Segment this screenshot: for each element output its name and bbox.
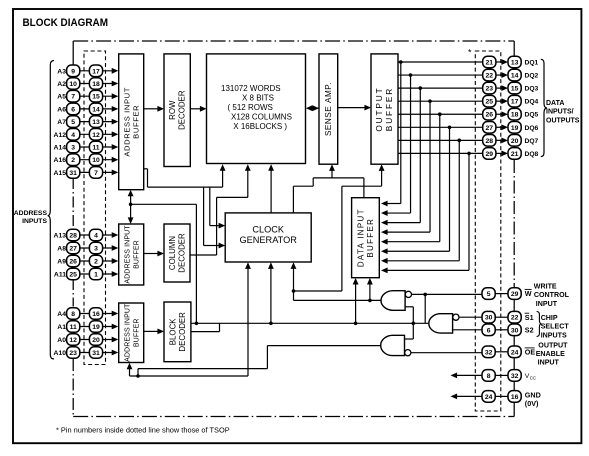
svg-text:BLOCK DIAGRAM: BLOCK DIAGRAM [23,17,109,29]
svg-text:3: 3 [94,246,98,253]
svg-text:16: 16 [92,311,100,318]
svg-text:19: 19 [511,125,519,132]
pin A10 (SOP 23 / TSOP 31) [54,347,119,359]
pin A7 (SOP 5 / TSOP 13) [57,116,118,128]
svg-text:CHIP: CHIP [541,314,558,322]
svg-text:ADDRESS INPUT: ADDRESS INPUT [125,225,132,284]
pin Vcc (TSOP 8 / SOP 32) [482,370,521,382]
svg-text:13: 13 [511,60,519,67]
svg-text:A1: A1 [57,324,66,331]
svg-text:30: 30 [511,327,519,334]
pin A8 (SOP 27 / TSOP 3) [57,242,118,254]
wire DQ6 net [381,125,483,254]
wire Vcc distribution [451,373,483,379]
svg-text:INPUT: INPUT [538,359,560,367]
svg-text:GENERATOR: GENERATOR [240,235,298,245]
svg-text:X128 COLUMNS: X128 COLUMNS [231,113,292,122]
block U11 CLOCK GENERATOR [225,213,311,262]
svg-text:ADDRESS: ADDRESS [14,210,48,217]
block U2 ROW DECODER [164,54,190,167]
svg-text:15: 15 [92,94,100,101]
svg-text:SELECT: SELECT [541,323,570,331]
svg-text:4: 4 [94,233,98,240]
svg-text:DQ3: DQ3 [525,86,539,93]
svg-text:13: 13 [92,119,100,126]
svg-text:DECODER: DECODER [177,233,186,273]
svg-text:BUFFER: BUFFER [134,240,141,269]
svg-text:S1: S1 [525,313,534,322]
svg-text:DQ5: DQ5 [525,112,539,119]
node OE-bar output enable label [525,341,569,366]
svg-text:17: 17 [92,68,100,75]
svg-text:COLUMN: COLUMN [168,236,177,270]
svg-text:INPUT: INPUT [536,300,558,308]
svg-text:14: 14 [92,106,100,113]
svg-text:25: 25 [486,99,494,106]
chip package boundary (dash-dot) [73,41,514,417]
svg-text:DQ1: DQ1 [525,60,539,67]
wire AIB2 to column decoder [144,251,164,257]
svg-text:BUFFER: BUFFER [134,318,141,347]
wire CS net to clock bottom [268,262,274,323]
wire junction to clock net [131,204,197,323]
svg-text:A5: A5 [57,94,66,101]
pin A0 (SOP 12 / TSOP 20) [57,334,118,346]
svg-text:11: 11 [70,324,77,331]
wire gate G3 output net [136,346,381,378]
svg-text:17: 17 [511,99,519,106]
svg-text:A2: A2 [57,81,66,88]
svg-text:* Pin numbers inside dotted li: * Pin numbers inside dotted line show th… [56,426,230,435]
pin GND (TSOP 24 / SOP 16) [482,391,521,403]
svg-text:27: 27 [486,125,494,132]
svg-text:CONTROL: CONTROL [534,291,570,299]
svg-text:8: 8 [71,311,75,318]
svg-text:131072 WORDS: 131072 WORDS [221,84,281,93]
svg-text:DECODER: DECODER [178,312,187,352]
pin DQ4 (TSOP 25 / SOP 17) [483,95,539,107]
svg-text:2: 2 [94,259,98,266]
block U3 memory cell array 131072 words [207,54,306,164]
wire up into array (2) [245,164,251,197]
node GND label [525,390,541,408]
footnote TSOP note [56,426,230,435]
asterisk marker [468,48,472,58]
wire G1 inverted input / W net [412,293,483,324]
svg-text:31: 31 [92,350,100,357]
wire block decoder aux [191,323,220,331]
svg-text:BUFFER: BUFFER [132,105,141,139]
svg-text:DATA INPUT: DATA INPUT [357,208,366,267]
svg-text:ADDRESS INPUT: ADDRESS INPUT [123,87,132,157]
svg-text:11: 11 [92,145,99,152]
wire clock to sense amp net [293,178,364,213]
svg-text:A6: A6 [57,106,66,113]
svg-text:A12: A12 [54,132,67,139]
block U6 ADDRESS INPUT BUFFER (columns) [119,224,144,285]
pin DQ6 (TSOP 27 / SOP 19) [483,121,539,133]
svg-text:24: 24 [485,394,493,401]
wire gate G1 output net [291,262,382,302]
svg-text:31: 31 [69,170,77,177]
wire branch to clock input 1 [210,187,225,228]
wire up into array (1) [220,164,226,187]
wire AIB1-AIB2 bus [128,190,134,224]
svg-text:32: 32 [511,373,519,380]
block U8 ADDRESS INPUT BUFFER (blocks) [119,303,144,363]
wire chip-select net (G2 output) [191,322,429,326]
block U10 DATA INPUT BUFFER [352,198,380,278]
svg-text:CLOCK: CLOCK [252,224,285,234]
svg-text:*: * [468,48,472,58]
pin A9 (SOP 26 / TSOP 2) [57,255,118,267]
wire OE net to G3 [411,352,482,354]
pin DQ1 (TSOP 21 / SOP 13) [483,56,539,68]
svg-text:28: 28 [486,138,494,145]
gate G3 (output enable NAND, mirrored) [381,335,411,356]
svg-text:26: 26 [486,112,494,119]
pin A6 (SOP 6 / TSOP 14) [57,103,118,115]
wire DQ7 net [381,139,483,264]
wire sense amp to output buffer [338,105,371,111]
svg-text:SENSE AMP.: SENSE AMP. [324,82,333,136]
pin S2 (TSOP 6 / SOP 30) [482,324,521,336]
wire clock generator to array [268,164,274,213]
svg-text:INPUTS: INPUTS [22,218,47,225]
node W-bar write control label [525,283,570,308]
wire AIB1 output net [144,169,223,187]
wire DQ4 net [381,99,483,235]
pin DQ3 (TSOP 23 / SOP 15) [483,82,539,94]
svg-text:BLOCK: BLOCK [168,318,177,345]
svg-text:DQ8: DQ8 [525,151,539,158]
svg-text:27: 27 [69,246,77,253]
svg-text:A7: A7 [57,119,66,126]
wire CS net to data input buffer bottom [353,278,359,323]
svg-text:2: 2 [71,157,75,164]
svg-text:5: 5 [71,119,75,126]
svg-text:7: 7 [71,94,75,101]
svg-text:BUFFER: BUFFER [384,87,394,131]
block U9 BLOCK DECODER [164,302,191,362]
wire ROW DECODER to memory array [190,106,206,112]
svg-text:DATA: DATA [546,100,564,107]
svg-text:21: 21 [511,151,519,158]
svg-text:32: 32 [485,349,493,356]
svg-text:3: 3 [71,145,75,152]
block U4 SENSE AMP [319,54,338,164]
wire DQ3 net [381,86,483,225]
svg-text:12: 12 [92,132,100,139]
svg-text:DQ6: DQ6 [525,125,539,132]
svg-text:10: 10 [92,157,100,164]
svg-text:1: 1 [94,272,98,279]
gate G1 (write control NAND, mirrored) [381,291,411,311]
pin W (TSOP 5 / SOP 29) [482,288,521,300]
svg-text:20: 20 [92,337,100,344]
block U7 COLUMN DECODER [164,224,190,282]
pin A14 (SOP 3 / TSOP 11) [54,141,119,153]
wire G3 upper input [405,338,414,340]
svg-text:A4: A4 [57,311,66,318]
svg-text:A3: A3 [57,68,66,75]
svg-text:16: 16 [511,394,519,401]
node DATA INPUTS/OUTPUTS label and brace [541,59,580,156]
svg-text:OE: OE [525,348,536,357]
node Vcc label [525,373,536,380]
svg-text:6: 6 [71,106,75,113]
svg-text:A8: A8 [57,246,66,253]
svg-text:4: 4 [71,132,75,139]
svg-text:ADDRESS INPUT: ADDRESS INPUT [125,303,132,362]
svg-text:8: 8 [487,373,491,380]
svg-text:22: 22 [486,73,494,80]
svg-text:14: 14 [511,73,519,80]
wire DQ5 net [381,112,483,244]
wire column decoder output [190,197,248,255]
wire branch to clock input 2 [204,187,226,248]
svg-text:20: 20 [511,138,519,145]
wire G1 net to data input buffer [367,278,373,301]
title BLOCK DIAGRAM [23,17,109,29]
svg-text:28: 28 [69,233,77,240]
wire GND distribution [451,394,483,400]
pin DQ5 (TSOP 26 / SOP 18) [483,108,539,120]
svg-text:29: 29 [511,291,519,298]
svg-text:W: W [525,289,532,298]
svg-text:18: 18 [92,81,100,88]
svg-text:OUTPUT: OUTPUT [374,86,384,131]
svg-text:DQ2: DQ2 [525,73,539,80]
svg-text:INPUTS/: INPUTS/ [546,109,574,116]
pin A12 (SOP 4 / TSOP 12) [54,129,119,141]
pin A1 (SOP 11 / TSOP 19) [57,321,118,333]
svg-text:CC: CC [530,375,536,380]
svg-text:10: 10 [69,81,77,88]
svg-text:X 16BLOCKS ): X 16BLOCKS ) [233,122,287,131]
svg-text:25: 25 [69,272,77,279]
gate G2 (chip select NAND, mirrored) [429,314,459,333]
wire DQ8 net [381,152,483,274]
wire array to sense amp (bidirectional) [306,105,333,111]
wire S1 net to G2 [459,316,482,318]
svg-text:A14: A14 [54,145,67,152]
svg-text:A10: A10 [54,350,67,357]
svg-text:5: 5 [487,291,491,298]
wire AIB1 to ROW DECODER [144,106,164,112]
pin A4 (SOP 8 / TSOP 16) [57,308,118,320]
svg-text:ENABLE: ENABLE [536,350,565,358]
svg-text:15: 15 [511,86,519,93]
svg-text:19: 19 [92,324,100,331]
pin A15 (SOP 31 / TSOP 7) [54,167,119,179]
wire clock input from lower net [127,262,251,376]
svg-text:A16: A16 [54,157,67,164]
svg-text:A15: A15 [54,170,67,177]
svg-text:9: 9 [71,68,75,75]
svg-text:30: 30 [485,315,493,322]
pin DQ7 (TSOP 28 / SOP 20) [483,135,539,147]
svg-text:12: 12 [69,337,77,344]
svg-text:23: 23 [486,86,494,93]
svg-text:DQ7: DQ7 [525,138,539,145]
svg-text:WRITE: WRITE [534,283,557,291]
pin DQ8 (TSOP 29 / SOP 21) [483,148,539,160]
wire AIB3 to block decoder [144,329,164,335]
wire G1 net to output buffer enable [294,164,385,291]
svg-text:X 8 BITS: X 8 BITS [242,93,274,102]
wire DQ1 net [381,60,483,206]
svg-text:S2: S2 [525,326,534,335]
svg-text:7: 7 [94,170,98,177]
wire G1 lower input [405,307,413,339]
svg-text:DQ4: DQ4 [525,99,539,106]
svg-text:A0: A0 [57,337,66,344]
svg-text:22: 22 [511,315,519,322]
svg-text:23: 23 [69,350,77,357]
svg-text:OUTPUT: OUTPUT [538,341,568,349]
TSOP dotted box left [84,51,106,365]
svg-text:A13: A13 [54,233,67,240]
wire DQ2 net [381,73,483,216]
wire arrow into sense amp bottom [329,164,335,178]
pin A13 (SOP 28 / TSOP 4) [54,229,119,241]
pin A3 (SOP 9 / TSOP 17) [57,65,118,77]
svg-text:BUFFER: BUFFER [366,218,375,258]
pin A2 (SOP 10 / TSOP 18) [57,78,118,90]
svg-text:6: 6 [487,327,491,334]
svg-text:29: 29 [486,151,494,158]
svg-text:OUTPUTS: OUTPUTS [546,117,580,124]
svg-text:26: 26 [69,259,77,266]
svg-text:A11: A11 [54,272,66,279]
pin DQ2 (TSOP 22 / SOP 14) [483,69,539,81]
node S1-bar / S2 chip select labels [525,312,570,340]
svg-text:18: 18 [511,112,519,119]
node ADDRESS INPUTS label and brace [14,61,54,360]
svg-text:21: 21 [486,60,494,67]
svg-text:A9: A9 [57,259,66,266]
pin A11 (SOP 25 / TSOP 1) [54,268,118,280]
pin A16 (SOP 2 / TSOP 10) [54,154,119,166]
TSOP dotted box right [475,51,501,411]
svg-text:ROW: ROW [168,100,177,120]
wire S2 net to G2 [453,329,483,331]
pin S1 (TSOP 30 / SOP 22) [482,311,521,323]
pin OE (TSOP 32 / SOP 24) [482,346,521,358]
svg-text:INPUTS: INPUTS [541,331,567,339]
svg-text:DECODER: DECODER [177,90,186,130]
block U5 OUTPUT BUFFER [371,54,398,164]
pin A5 (SOP 7 / TSOP 15) [57,90,118,102]
block U1 ADDRESS INPUT BUFFER (rows) [119,54,144,190]
svg-text:24: 24 [511,349,519,356]
svg-text:( 512 ROWS: ( 512 ROWS [228,103,273,112]
svg-text:(0V): (0V) [525,399,539,408]
